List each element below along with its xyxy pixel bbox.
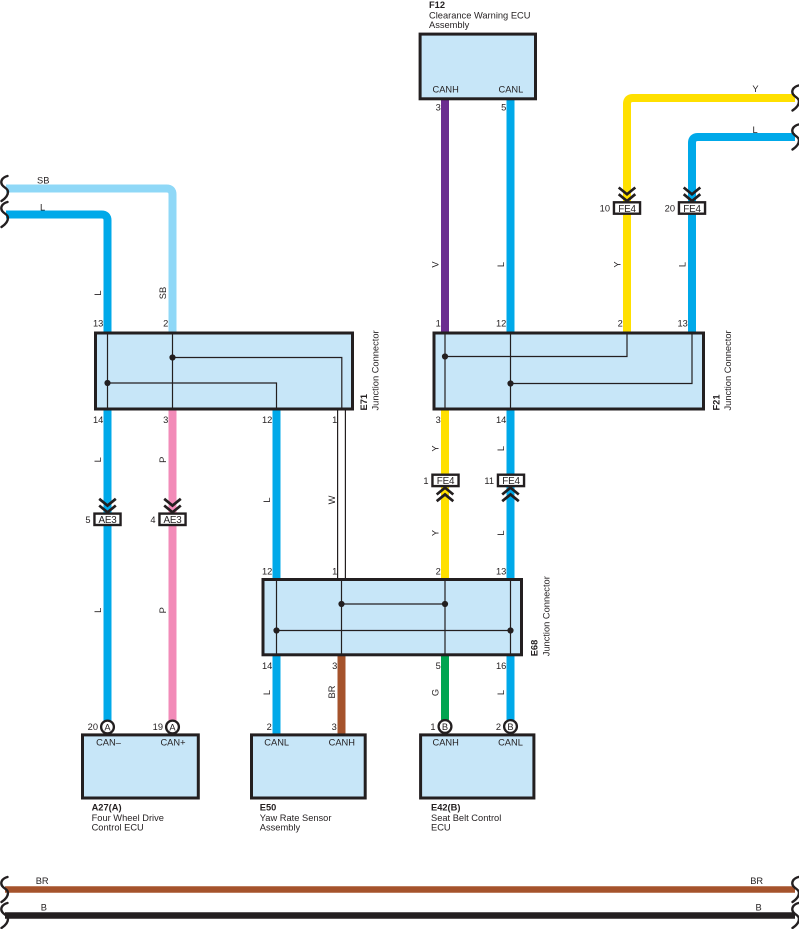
svg-text:14: 14 [93,415,103,425]
svg-text:L: L [93,290,103,295]
svg-text:Y: Y [431,530,441,536]
svg-text:11: 11 [484,476,494,486]
svg-text:P: P [158,607,168,613]
break symbol L wire right [792,125,799,150]
svg-text:L: L [753,125,758,135]
F21 junction dot at pin12 bus [507,380,513,386]
wire L (blue) from E68 pin 16 to E42 pin 2 [507,655,515,727]
svg-text:CAN+: CAN+ [160,737,185,747]
svg-text:AE3: AE3 [163,515,182,526]
svg-text:Control ECU: Control ECU [92,823,144,833]
connector FE4(20) box [679,202,705,215]
svg-text:12: 12 [496,318,506,328]
connector AE3(4) arrow [164,499,181,512]
svg-text:1: 1 [430,722,435,732]
svg-text:L: L [93,457,103,462]
connector AE3(4) box [159,514,185,527]
break symbol B bar left [1,903,8,928]
connector FE4(11) box [498,475,524,488]
A27 caption [92,803,164,833]
wire P (pink) from E71 pin 3 through AE3(4) to A27 pin 19 [169,409,177,727]
connector FE4(20) arrow [684,188,701,202]
svg-text:5: 5 [501,102,506,112]
svg-text:FE4: FE4 [683,204,701,215]
svg-text:12: 12 [262,415,272,425]
svg-text:12: 12 [262,567,272,577]
E68 internal bus lines [277,581,511,654]
svg-text:FE4: FE4 [502,476,520,487]
svg-text:2: 2 [618,318,623,328]
E71 pin labels [93,318,337,425]
wire L (blue) from FE4(11) to E68 pin 13 [507,485,515,580]
svg-text:FE4: FE4 [618,204,636,215]
svg-text:B: B [756,903,762,913]
svg-text:Junction Connector: Junction Connector [723,330,733,410]
F21 junction dot at pin1 bus [442,353,448,359]
svg-text:4: 4 [150,515,155,525]
svg-text:14: 14 [262,661,272,671]
break symbol B bar right [792,903,799,928]
svg-text:13: 13 [496,567,506,577]
wire SB (sky blue) from left break to E71 pin 2 [6,189,173,335]
wire W (white) from E71 pin 1 to E68 pin 1 [338,408,346,580]
svg-text:CANH: CANH [329,737,355,747]
svg-text:E50: E50 [260,803,277,813]
svg-text:CANH: CANH [433,85,459,95]
F21 pin labels [436,318,688,425]
svg-text:Y: Y [613,261,623,267]
svg-text:A27(A): A27(A) [92,803,122,813]
svg-text:CANL: CANL [498,85,523,95]
F12 caption [429,0,530,30]
svg-text:B: B [442,722,448,732]
junction connector F21 box [434,333,704,409]
svg-text:L: L [93,608,103,613]
ECU E42 box [421,735,534,798]
wire BR (brown) from E68 pin 3 to E50 pin 3 [338,655,346,735]
svg-text:Assembly: Assembly [260,823,301,833]
junction connector E68 box [263,580,522,655]
svg-text:L: L [262,690,272,695]
svg-text:V: V [431,261,441,268]
ECU F12 box [420,34,535,99]
svg-text:L: L [678,262,688,267]
svg-text:F12: F12 [429,0,445,10]
svg-text:ECU: ECU [431,823,451,833]
svg-text:F21: F21 [712,394,722,410]
svg-text:SB: SB [37,176,49,186]
junction connector E71 box [96,333,353,409]
svg-text:CANL: CANL [264,737,289,747]
E71 junction dot at pin2 bus [169,354,175,360]
svg-text:FE4: FE4 [437,476,455,487]
svg-text:L: L [496,446,506,451]
svg-text:2: 2 [267,722,272,732]
svg-text:L: L [496,262,506,267]
svg-text:Junction Connector: Junction Connector [542,576,552,656]
break symbol BR bar left [1,877,8,902]
connector AE3(5) arrow [99,499,116,512]
svg-text:1: 1 [332,567,337,577]
wire L (blue) from E71 pin 14 through AE3(5) to A27 pin 20 [104,409,112,727]
svg-text:BR: BR [750,876,763,886]
E68 pin labels [262,567,506,672]
svg-text:G: G [431,689,441,696]
svg-text:AE3: AE3 [98,515,117,526]
svg-text:2: 2 [496,722,501,732]
F21 internal bus lines [445,334,692,408]
E71 junction dot at pin13 bus [104,380,110,386]
break symbol Y wire right [792,86,799,111]
svg-text:W: W [327,495,337,504]
wire L (blue) from F12 pin 5 CANL to F21 pin 12 [507,99,515,334]
break symbol L wire left [1,202,8,227]
sensor E50 box [252,735,366,798]
svg-text:13: 13 [677,318,687,328]
connector FE4(10) arrow [619,188,636,202]
shield wire BR (brown bar) [5,886,795,893]
E42 caption [431,803,501,833]
wire V (violet) from F12 pin 3 CANH to F21 pin 1 [441,99,449,334]
connector FE4(1) box [432,475,458,488]
svg-text:2: 2 [163,318,168,328]
wire L (blue) from F21 pin 14 to FE4(11) [507,409,515,476]
svg-text:3: 3 [332,661,337,671]
wire G (green) from E68 pin 5 to E42 pin 1 [441,655,449,727]
E42 terminal circle B pin 1 [439,720,452,733]
svg-text:E68: E68 [530,640,540,657]
svg-text:5: 5 [436,661,441,671]
svg-text:5: 5 [85,515,90,525]
svg-text:Clearance Warning ECU: Clearance Warning ECU [429,10,530,20]
svg-text:2: 2 [436,567,441,577]
svg-text:Seat Belt Control: Seat Belt Control [431,813,501,823]
svg-text:L: L [40,202,45,212]
svg-text:L: L [496,530,506,535]
wire Y (yellow) from right break to connector FE4(10) [627,98,795,203]
svg-text:BR: BR [36,876,49,886]
svg-text:19: 19 [153,722,163,732]
E71 internal bus lines [108,334,342,408]
svg-text:14: 14 [496,415,506,425]
svg-text:Yaw Rate Sensor: Yaw Rate Sensor [260,813,332,823]
svg-text:B: B [41,903,47,913]
svg-text:3: 3 [436,102,441,112]
ECU A27 box [83,735,199,798]
wire L (blue) from left break to E71 pin 13 [6,215,108,335]
svg-text:3: 3 [436,415,441,425]
svg-text:SB: SB [158,287,168,299]
svg-text:1: 1 [332,415,337,425]
svg-text:3: 3 [332,722,337,732]
svg-text:20: 20 [665,204,675,214]
svg-text:3: 3 [163,415,168,425]
svg-text:Four Wheel Drive: Four Wheel Drive [92,813,164,823]
svg-text:A: A [169,722,176,732]
E42 terminal circle B pin 2 [504,720,517,733]
svg-text:13: 13 [93,318,103,328]
svg-text:L: L [496,690,506,695]
svg-text:10: 10 [600,204,610,214]
connector AE3(5) box [94,514,120,527]
A27 terminal circle A pin 20 [101,721,114,734]
svg-text:P: P [158,457,168,463]
svg-text:1: 1 [436,318,441,328]
wire L (blue) from FE4(20) to F21 pin 13 [688,213,696,334]
svg-text:A: A [104,722,111,732]
connector FE4(10) box [614,202,640,215]
svg-text:1: 1 [423,476,428,486]
svg-text:Assembly: Assembly [429,20,470,30]
E50 caption [260,803,332,833]
connector FE4(11) arrow [502,488,519,502]
break symbol SB wire left [1,176,8,201]
wire Y (yellow) from FE4(1) to E68 pin 2 [441,485,449,580]
break symbol BR bar right [792,877,799,902]
wire L (blue) from right break to connector FE4(20) [692,137,795,203]
svg-text:CAN–: CAN– [96,737,122,747]
svg-text:16: 16 [496,661,506,671]
svg-text:Y: Y [431,445,441,451]
wire L (blue) from E68 pin 14 to E50 pin 2 [273,655,281,735]
wire Y (yellow) from FE4(10) to F21 pin 2 [623,213,631,334]
svg-text:CANH: CANH [433,737,459,747]
svg-text:Junction Connector: Junction Connector [371,330,381,410]
svg-text:B: B [507,722,513,732]
svg-text:E42(B): E42(B) [431,803,460,813]
svg-text:BR: BR [327,685,337,698]
svg-text:L: L [262,497,272,502]
wire Y (yellow) from F21 pin 3 to FE4(1) [441,409,449,476]
connector FE4(1) arrow [437,488,454,502]
wire L (blue) from E71 pin 12 to E68 pin 12 [273,409,281,580]
svg-text:CANL: CANL [498,737,523,747]
shield wire B (black bar) [5,912,795,919]
svg-text:E71: E71 [359,394,369,411]
A27 terminal circle A pin 19 [166,721,179,734]
E68 junction dots [338,601,344,607]
svg-text:20: 20 [88,722,98,732]
svg-text:Y: Y [752,84,758,94]
